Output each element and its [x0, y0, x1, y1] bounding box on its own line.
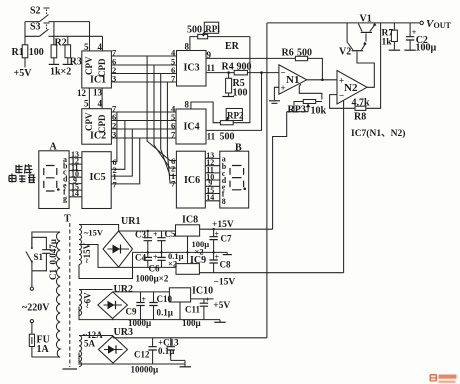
bridge rectifier UR3: [99, 327, 133, 363]
svg-text:CPV: CPV: [84, 112, 94, 131]
svg-text:V2: V2: [339, 47, 351, 58]
svg-text:ER: ER: [225, 41, 240, 52]
bus IC2 to IC4 (pins 7,6,2,3 to 4,5,6,7): [111, 104, 176, 140]
svg-text:N2: N2: [344, 82, 358, 94]
ground (C2): [404, 49, 415, 51]
svg-text:500: 500: [187, 25, 202, 36]
resistor R2: [51, 22, 67, 64]
wire mid ground rail: [133, 251, 228, 253]
svg-text:C4: C4: [135, 253, 146, 263]
svg-text:100µ: 100µ: [416, 43, 437, 54]
svg-text:R3: R3: [70, 57, 82, 68]
svg-text:B: B: [235, 143, 242, 154]
svg-text:CPD: CPD: [97, 114, 107, 133]
svg-text:900: 900: [237, 62, 252, 73]
svg-text:11: 11: [207, 63, 216, 73]
wire IC1 pin13 to IC2 pin4: [101, 88, 103, 109]
resistor R3: [65, 36, 82, 67]
capacitor C8: [209, 252, 231, 272]
regulator IC8: [176, 215, 200, 254]
svg-text:R6: R6: [282, 48, 294, 59]
svg-text:14: 14: [71, 189, 79, 198]
resistor R1: [12, 45, 44, 68]
svg-text:C5: C5: [165, 229, 176, 239]
svg-text:12: 12: [77, 88, 87, 98]
svg-text:UR3: UR3: [114, 327, 133, 338]
svg-text:RP3: RP3: [288, 105, 306, 116]
rail -15V: [199, 272, 343, 274]
wire secondary top to UR1: [79, 225, 119, 232]
wire IC3 pin11 to R4: [206, 72, 234, 74]
svg-text:~6V: ~6V: [83, 292, 93, 308]
ground (mid rail): [223, 254, 232, 256]
wire left rail to R1: [24, 22, 26, 45]
rail +5V: [191, 298, 214, 300]
display B: [220, 143, 249, 209]
svg-text:0.1µ: 0.1µ: [157, 308, 174, 318]
svg-text:R8: R8: [354, 112, 366, 123]
potentiometer RP1 500: [187, 22, 250, 50]
wire IC1 pin12 to IC2 pin5: [88, 88, 90, 109]
output terminal VOUT: [420, 18, 452, 30]
svg-text:CPV: CPV: [84, 56, 94, 75]
wire IC4 pin8 to RP2: [191, 102, 221, 123]
wire 12V winding to UR3: [79, 336, 113, 365]
svg-text:S1: S1: [34, 252, 44, 262]
svg-text:+: +: [142, 295, 147, 304]
svg-text:+: +: [281, 83, 286, 93]
svg-text:3: 3: [112, 74, 116, 84]
svg-text:IC3: IC3: [184, 63, 200, 74]
svg-text:IC7(N1、N2): IC7(N1、N2): [351, 128, 405, 139]
svg-text:100: 100: [233, 88, 248, 99]
svg-text:−15V: −15V: [214, 278, 236, 288]
capacitor C13: [158, 338, 185, 365]
capacitor C7: [209, 228, 232, 254]
wire IC3 pin9 to R6: [206, 57, 295, 59]
svg-text:500: 500: [220, 132, 235, 143]
regulator IC10: [169, 286, 213, 320]
wire secondary bottom to UR1 right: [79, 252, 133, 278]
wires IC6 to display B with pin numbers 13,12,11,10,9,15,14: [205, 151, 220, 202]
rail UR3 negative: [113, 363, 185, 364]
rail UR1 negative to IC9: [119, 266, 176, 268]
capacitor C3: [135, 230, 158, 254]
svg-text:~220V: ~220V: [22, 303, 50, 314]
svg-text:1000µ×2: 1000µ×2: [136, 274, 169, 284]
capacitor C12: [134, 338, 157, 364]
transformer secondary winding 6V: [79, 290, 93, 316]
svg-text:+: +: [205, 296, 210, 305]
svg-text:13: 13: [93, 88, 103, 98]
svg-text:5A: 5A: [84, 339, 96, 349]
svg-text:T: T: [64, 214, 71, 225]
wire RP3 to +15V rail: [273, 112, 287, 230]
svg-text:+: +: [339, 76, 344, 86]
svg-text:C12: C12: [134, 350, 150, 360]
wire N1 noninverting input to ground: [274, 87, 279, 100]
switch S1: [26, 247, 44, 271]
ground (UR3 rail): [180, 366, 192, 368]
resistor R4 900: [222, 62, 279, 75]
svg-text:+15V: +15V: [212, 220, 234, 230]
svg-text:IC6: IC6: [184, 175, 200, 186]
wire 6V winding to UR2: [79, 290, 113, 320]
ground (R3): [63, 63, 73, 65]
svg-text:g: g: [63, 194, 67, 203]
regulator IC9: [176, 252, 206, 274]
node ER wire down to RP2: [233, 37, 250, 123]
resistor R5 100: [226, 71, 248, 98]
resistor R6 500: [282, 48, 323, 80]
wire collector feed down to UR3: [266, 23, 268, 338]
transformer secondary winding 15V-0-15V: [79, 225, 104, 265]
rail UR1 positive to IC8: [119, 230, 176, 232]
svg-text:10k: 10k: [311, 106, 327, 117]
wires IC1 bus down to IC6 (verticals with diagonals): [147, 56, 176, 183]
wire IC4 pin11 to N1 input node: [206, 73, 262, 131]
wire center tap to UR1 bottom: [79, 245, 119, 268]
transformer secondary winding 12V: [79, 330, 103, 367]
svg-text:11: 11: [207, 132, 216, 142]
capacitor C4: [135, 252, 158, 267]
decoder IC6: [171, 151, 205, 208]
svg-text:IC9: IC9: [190, 255, 206, 266]
potentiometer RP3 10k: [287, 84, 327, 117]
op-amp N1: [279, 65, 307, 94]
svg-text:8: 8: [185, 100, 190, 110]
svg-text:RP2: RP2: [227, 111, 244, 121]
wires IC2 bus down to IC5: [111, 112, 140, 184]
bridge rectifier UR2: [98, 284, 133, 319]
svg-text:5: 5: [84, 99, 89, 109]
ground (R7): [389, 49, 400, 51]
decoder IC5: [82, 152, 118, 209]
ground (R2): [49, 63, 59, 65]
svg-text:IC10: IC10: [192, 286, 213, 297]
svg-text:4: 4: [98, 99, 103, 109]
svg-text:1A: 1A: [37, 344, 50, 355]
ground (N1): [269, 101, 280, 104]
svg-text:−: −: [281, 68, 286, 78]
op-amp N2: [337, 71, 367, 105]
rail UR2 positive to IC10: [113, 291, 170, 293]
transformer primary winding: [56, 232, 60, 358]
terminal ~220V: [22, 271, 50, 323]
DAC IC4: [176, 100, 235, 145]
counter IC2: [82, 99, 112, 145]
DAC IC3: [177, 42, 216, 87]
svg-text:+5V: +5V: [213, 301, 230, 311]
svg-text:8: 8: [185, 42, 190, 52]
svg-text:CPD: CPD: [97, 58, 107, 77]
counter IC1: [77, 42, 111, 98]
wire N1 output to N2: [307, 79, 337, 81]
svg-text:8: 8: [222, 197, 226, 206]
svg-text:10000µ: 10000µ: [131, 365, 160, 375]
svg-text:500: 500: [297, 48, 312, 59]
wire N2 inverting input to R8: [330, 95, 355, 109]
svg-text:5: 5: [84, 42, 89, 52]
watermark logo: [430, 374, 457, 383]
svg-text:IC8: IC8: [182, 215, 198, 226]
svg-text:0.1µ: 0.1µ: [158, 346, 175, 356]
wire primary top: [32, 232, 60, 247]
svg-text:N1: N1: [286, 74, 299, 86]
svg-text:C1 0.047µ: C1 0.047µ: [48, 238, 58, 280]
wire S2 net to CPV: [25, 22, 90, 51]
svg-text:C3: C3: [135, 230, 146, 240]
svg-text:4: 4: [98, 42, 103, 52]
wire N2 negative supply to -15V: [343, 100, 345, 272]
svg-text:UR2: UR2: [114, 284, 133, 295]
svg-text:RPl: RPl: [205, 24, 220, 34]
capacitor C6: [149, 252, 166, 273]
svg-text:+: +: [153, 230, 158, 239]
capacitor C11: [185, 296, 210, 320]
svg-text:C7: C7: [221, 234, 232, 244]
svg-text:+: +: [215, 230, 220, 239]
transformer T core: [63, 214, 78, 370]
svg-text:1k: 1k: [382, 38, 393, 48]
display A: [39, 142, 69, 209]
switch S2: [30, 6, 50, 22]
capacitor C5: [157, 229, 176, 254]
svg-text:UR1: UR1: [121, 216, 140, 227]
svg-text:OUT: OUT: [434, 21, 452, 30]
svg-text:−: −: [339, 91, 344, 101]
resistor R8 4.7k: [352, 23, 381, 123]
rail +15V: [200, 228, 273, 230]
svg-text:1k×2: 1k×2: [50, 67, 71, 78]
svg-text:C11: C11: [185, 305, 201, 315]
ground (UR2 rail): [219, 320, 221, 322]
svg-text:C9: C9: [126, 307, 137, 317]
svg-text:IC4: IC4: [184, 122, 200, 133]
wire N2 output to V2 base: [357, 52, 374, 88]
svg-text:~15V: ~15V: [82, 242, 92, 263]
transistor V2: [339, 23, 367, 58]
svg-text:3: 3: [112, 130, 116, 140]
label digital display (Chinese): [9, 164, 36, 183]
svg-text:~15V: ~15V: [84, 228, 104, 238]
svg-text:100: 100: [29, 47, 44, 58]
svg-text:4.7k: 4.7k: [352, 98, 371, 109]
svg-text:+5V: +5V: [14, 68, 33, 79]
svg-text:S3: S3: [30, 22, 41, 33]
resistor R7 1k: [382, 23, 398, 50]
fuse FU 1A: [29, 323, 60, 357]
wires display A to IC5 with pin numbers 13,12,11,10,9,15,14: [69, 150, 82, 198]
switch S3: [30, 22, 50, 37]
rail UR2 negative: [113, 319, 220, 320]
svg-text:R1: R1: [12, 47, 24, 58]
transistor V1: [358, 14, 376, 42]
svg-text:S2: S2: [30, 6, 41, 17]
wire V1 collector rail: [267, 22, 420, 24]
svg-text:100µ: 100µ: [182, 318, 202, 328]
svg-text:14: 14: [206, 193, 214, 202]
potentiometer RP2 500: [220, 109, 244, 125]
svg-text:C6: C6: [149, 264, 160, 274]
capacitor C1 0.047u: [32, 237, 58, 280]
svg-text:C8: C8: [220, 260, 231, 270]
rail UR3 positive to V1 collector: [113, 336, 267, 338]
wire S3 net to CPD: [25, 36, 103, 51]
svg-text:R4: R4: [222, 62, 234, 73]
capacitor C9: [126, 292, 147, 320]
bus IC1 to IC3 (pins 7,6,2,3 to 4,5,6,7): [111, 48, 176, 84]
ground (R5): [222, 96, 234, 98]
capacitor C10: [149, 292, 173, 320]
svg-text:IC5: IC5: [90, 172, 106, 183]
svg-text:+: +: [153, 253, 158, 262]
capacitor C2 100u: [406, 23, 437, 54]
bridge rectifier UR1: [103, 216, 140, 267]
